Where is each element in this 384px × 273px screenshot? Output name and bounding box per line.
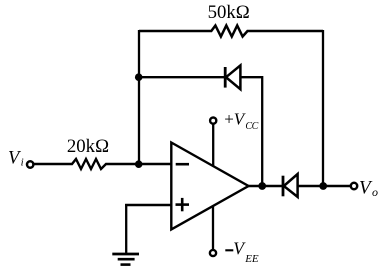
svg-text:20kΩ: 20kΩ: [67, 136, 109, 157]
svg-text:50kΩ: 50kΩ: [208, 2, 250, 23]
svg-text:V: V: [359, 178, 373, 199]
svg-text:EE: EE: [244, 253, 259, 265]
svg-text:i: i: [21, 157, 24, 169]
svg-text:o: o: [372, 185, 378, 199]
svg-text:+V: +V: [224, 110, 247, 129]
svg-text:CC: CC: [245, 121, 258, 132]
